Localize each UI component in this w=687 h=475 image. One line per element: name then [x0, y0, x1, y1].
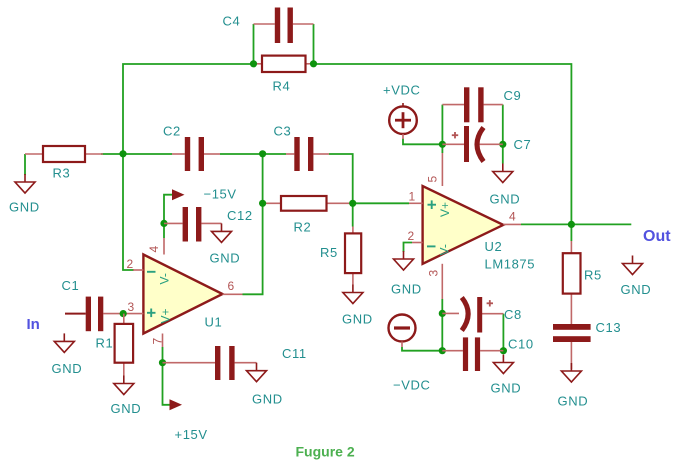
svg-text:R5: R5 [320, 245, 338, 260]
node R3/C2 junction [119, 150, 126, 157]
svg-text:C12: C12 [227, 208, 253, 223]
node U2 pin3 / C8 junction [439, 310, 446, 317]
power +VDC [383, 83, 420, 140]
capacitor C4 [223, 8, 314, 44]
wire C9 right stub [502, 105, 504, 145]
wire U2 pin2 to ground [404, 243, 413, 253]
op-amp U2 [423, 186, 535, 272]
wire R5 top stub [570, 224, 572, 241]
wire U2 pin3 stub [441, 299, 443, 313]
wire U1 output up to R2 node [243, 154, 263, 294]
capacitor C3 [274, 124, 330, 172]
svg-text:+15V: +15V [175, 427, 208, 442]
svg-text:C11: C11 [282, 346, 307, 361]
ground under C7 [490, 164, 521, 207]
op-amp U1 [143, 255, 222, 334]
svg-text:R5: R5 [584, 268, 602, 283]
ground under U2 pin2 [391, 251, 422, 297]
resistor R1 [96, 314, 134, 376]
node output junction [568, 221, 575, 228]
svg-text:4: 4 [509, 210, 516, 224]
ground floating near Out [621, 256, 652, 298]
svg-text:R2: R2 [294, 220, 312, 235]
capacitor C7 (polarized) [442, 126, 531, 162]
wire C3 right down to R2 node [329, 154, 353, 203]
wire C9 left stub [441, 105, 443, 145]
svg-text:−15V: −15V [204, 187, 237, 202]
power arrow +15V [170, 399, 208, 442]
node C9/C7 right junction [499, 141, 506, 148]
svg-text:U1: U1 [205, 315, 223, 330]
svg-text:7: 7 [151, 338, 165, 345]
pin 1 U2 [409, 190, 423, 204]
node R4 right junction [310, 60, 317, 67]
power -VDC [389, 315, 431, 393]
svg-text:C8: C8 [504, 307, 522, 322]
svg-text:Out: Out [643, 228, 671, 245]
wire output [571, 223, 631, 225]
ground under R5a [342, 285, 373, 327]
svg-text:Fugure 2: Fugure 2 [296, 444, 355, 460]
ground under R1 [111, 376, 142, 417]
wire pin3 node down to C10 [441, 313, 443, 350]
node U1 pin7 / C11 junction [159, 359, 166, 366]
svg-text:C2: C2 [163, 124, 181, 139]
resistor R3 [25, 146, 103, 181]
svg-text:C3: C3 [274, 124, 292, 139]
ground under C13 [558, 363, 589, 409]
wire U2 pin4 to output junction [521, 223, 571, 225]
svg-text:R4: R4 [273, 79, 291, 94]
pin 3 U1 [123, 300, 143, 314]
svg-text:2: 2 [408, 229, 415, 243]
svg-text:V+: V+ [159, 308, 173, 323]
ground under C10 [491, 355, 522, 396]
wire feedback top-left [123, 64, 254, 154]
svg-text:R1: R1 [96, 336, 114, 351]
capacitor C11 [163, 346, 307, 380]
svg-text:GND: GND [342, 312, 373, 327]
capacitor C8 (polarized) [442, 297, 522, 333]
capacitor C10 [442, 336, 533, 371]
svg-text:GND: GND [252, 392, 283, 407]
node R2 left junction [259, 200, 266, 207]
wire C4 right stub [313, 24, 315, 64]
wire +VDC to C7 node [403, 139, 442, 145]
svg-text:2: 2 [127, 257, 134, 271]
ground under R3 [9, 174, 40, 215]
resistor R5 (output) [563, 241, 602, 324]
svg-text:U2: U2 [485, 239, 503, 254]
svg-text:In: In [27, 316, 40, 333]
ground below In [52, 333, 83, 376]
capacitor C9 [442, 87, 521, 122]
wire U2 pin5 stub [441, 144, 443, 153]
capacitor C13 [553, 320, 621, 369]
svg-text:R3: R3 [53, 166, 71, 181]
node -VDC/C10 junction [439, 347, 446, 354]
svg-text:C7: C7 [514, 137, 532, 152]
wire R2 to U2 pin1 [353, 202, 409, 204]
wire C4 left stub [253, 24, 255, 64]
svg-text:GND: GND [111, 401, 142, 416]
pin 6 U1 [223, 279, 243, 294]
svg-text:V-: V- [438, 244, 452, 255]
wire feedback top-right [314, 64, 572, 224]
node U1 pin4 / C12 junction [160, 220, 167, 227]
svg-text:−VDC: −VDC [393, 378, 430, 393]
svg-text:GND: GND [491, 381, 522, 396]
wire C7 node down to ground [502, 144, 504, 163]
svg-text:C9: C9 [504, 88, 522, 103]
svg-text:+VDC: +VDC [383, 83, 420, 98]
node R2 right junction [349, 200, 356, 207]
svg-text:4: 4 [147, 246, 161, 253]
wire vertical to U1 pin2 [123, 154, 134, 270]
svg-text:5: 5 [426, 176, 440, 183]
wire C8 right down to C10 [502, 314, 504, 351]
pin 7 U1 [151, 334, 165, 348]
svg-text:3: 3 [427, 270, 441, 277]
resistor R2 [263, 196, 353, 235]
ground under C12 [210, 223, 241, 265]
capacitor C2 [163, 124, 220, 172]
ground right of C11 [247, 363, 283, 407]
svg-text:GND: GND [391, 282, 422, 297]
svg-text:V-: V- [158, 273, 172, 284]
svg-text:GND: GND [9, 200, 40, 215]
svg-text:6: 6 [228, 279, 235, 293]
svg-text:C4: C4 [223, 14, 241, 29]
pin 2 U1 [127, 257, 144, 271]
wire U1 pin7 to +15V [163, 347, 170, 405]
wire U1 pin4 to -15V [164, 195, 172, 238]
capacitor C1 [62, 278, 124, 331]
power arrow -15V [172, 187, 237, 202]
node +VDC/C9/C7/pin5 junction [439, 141, 446, 148]
svg-text:1: 1 [409, 190, 416, 204]
svg-text:GND: GND [210, 251, 241, 266]
wire R3 to C2 [101, 153, 172, 155]
svg-text:C1: C1 [62, 278, 80, 293]
pin 2 U2 [408, 229, 423, 243]
svg-text:GND: GND [52, 361, 83, 376]
svg-text:LM1875: LM1875 [485, 257, 536, 272]
node R4 left junction [250, 60, 257, 67]
node C2/C3 junction [259, 150, 266, 157]
pin 4 U2 [503, 210, 521, 225]
svg-text:C10: C10 [508, 336, 534, 351]
wire C2 to C3 [220, 153, 286, 155]
svg-text:C13: C13 [596, 320, 622, 335]
svg-text:GND: GND [490, 192, 521, 207]
wire R5a top stub [352, 203, 354, 226]
pin 3 U2 [427, 264, 443, 299]
svg-text:GND: GND [621, 282, 652, 297]
svg-text:GND: GND [558, 394, 589, 409]
wire R3 left to ground [24, 154, 26, 175]
wire -VDC to C10 node [402, 347, 442, 351]
svg-text:3: 3 [128, 300, 135, 314]
svg-text:V+: V+ [438, 202, 452, 217]
pin 4 U1 [147, 238, 164, 255]
capacitor C12 [164, 207, 253, 242]
node C1/R1/pin3 junction [120, 310, 127, 317]
resistor R4 [254, 56, 314, 94]
node C8/C10 right junction [500, 347, 507, 354]
resistor R5 (near U2 pin 1) [320, 227, 361, 285]
pin 5 U2 [426, 153, 443, 186]
